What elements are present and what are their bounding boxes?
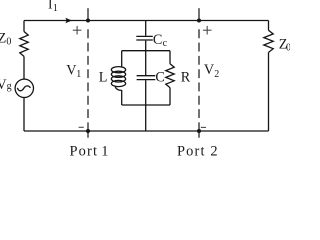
svg-text:0: 0 <box>6 37 11 48</box>
svg-text:C: C <box>153 32 162 48</box>
svg-text:1: 1 <box>53 3 58 14</box>
svg-text:Port: Port <box>70 143 99 158</box>
svg-text:g: g <box>7 81 12 92</box>
svg-text:L: L <box>99 69 108 85</box>
svg-text:Port: Port <box>177 143 206 158</box>
svg-text:1: 1 <box>76 69 81 80</box>
svg-text:0: 0 <box>286 43 290 54</box>
svg-text:1: 1 <box>101 143 108 158</box>
svg-text:C: C <box>155 69 164 85</box>
svg-text:c: c <box>163 38 168 49</box>
svg-text:R: R <box>181 69 191 85</box>
svg-text:2: 2 <box>214 69 219 80</box>
svg-text:Z: Z <box>0 31 6 47</box>
svg-text:2: 2 <box>210 143 217 158</box>
